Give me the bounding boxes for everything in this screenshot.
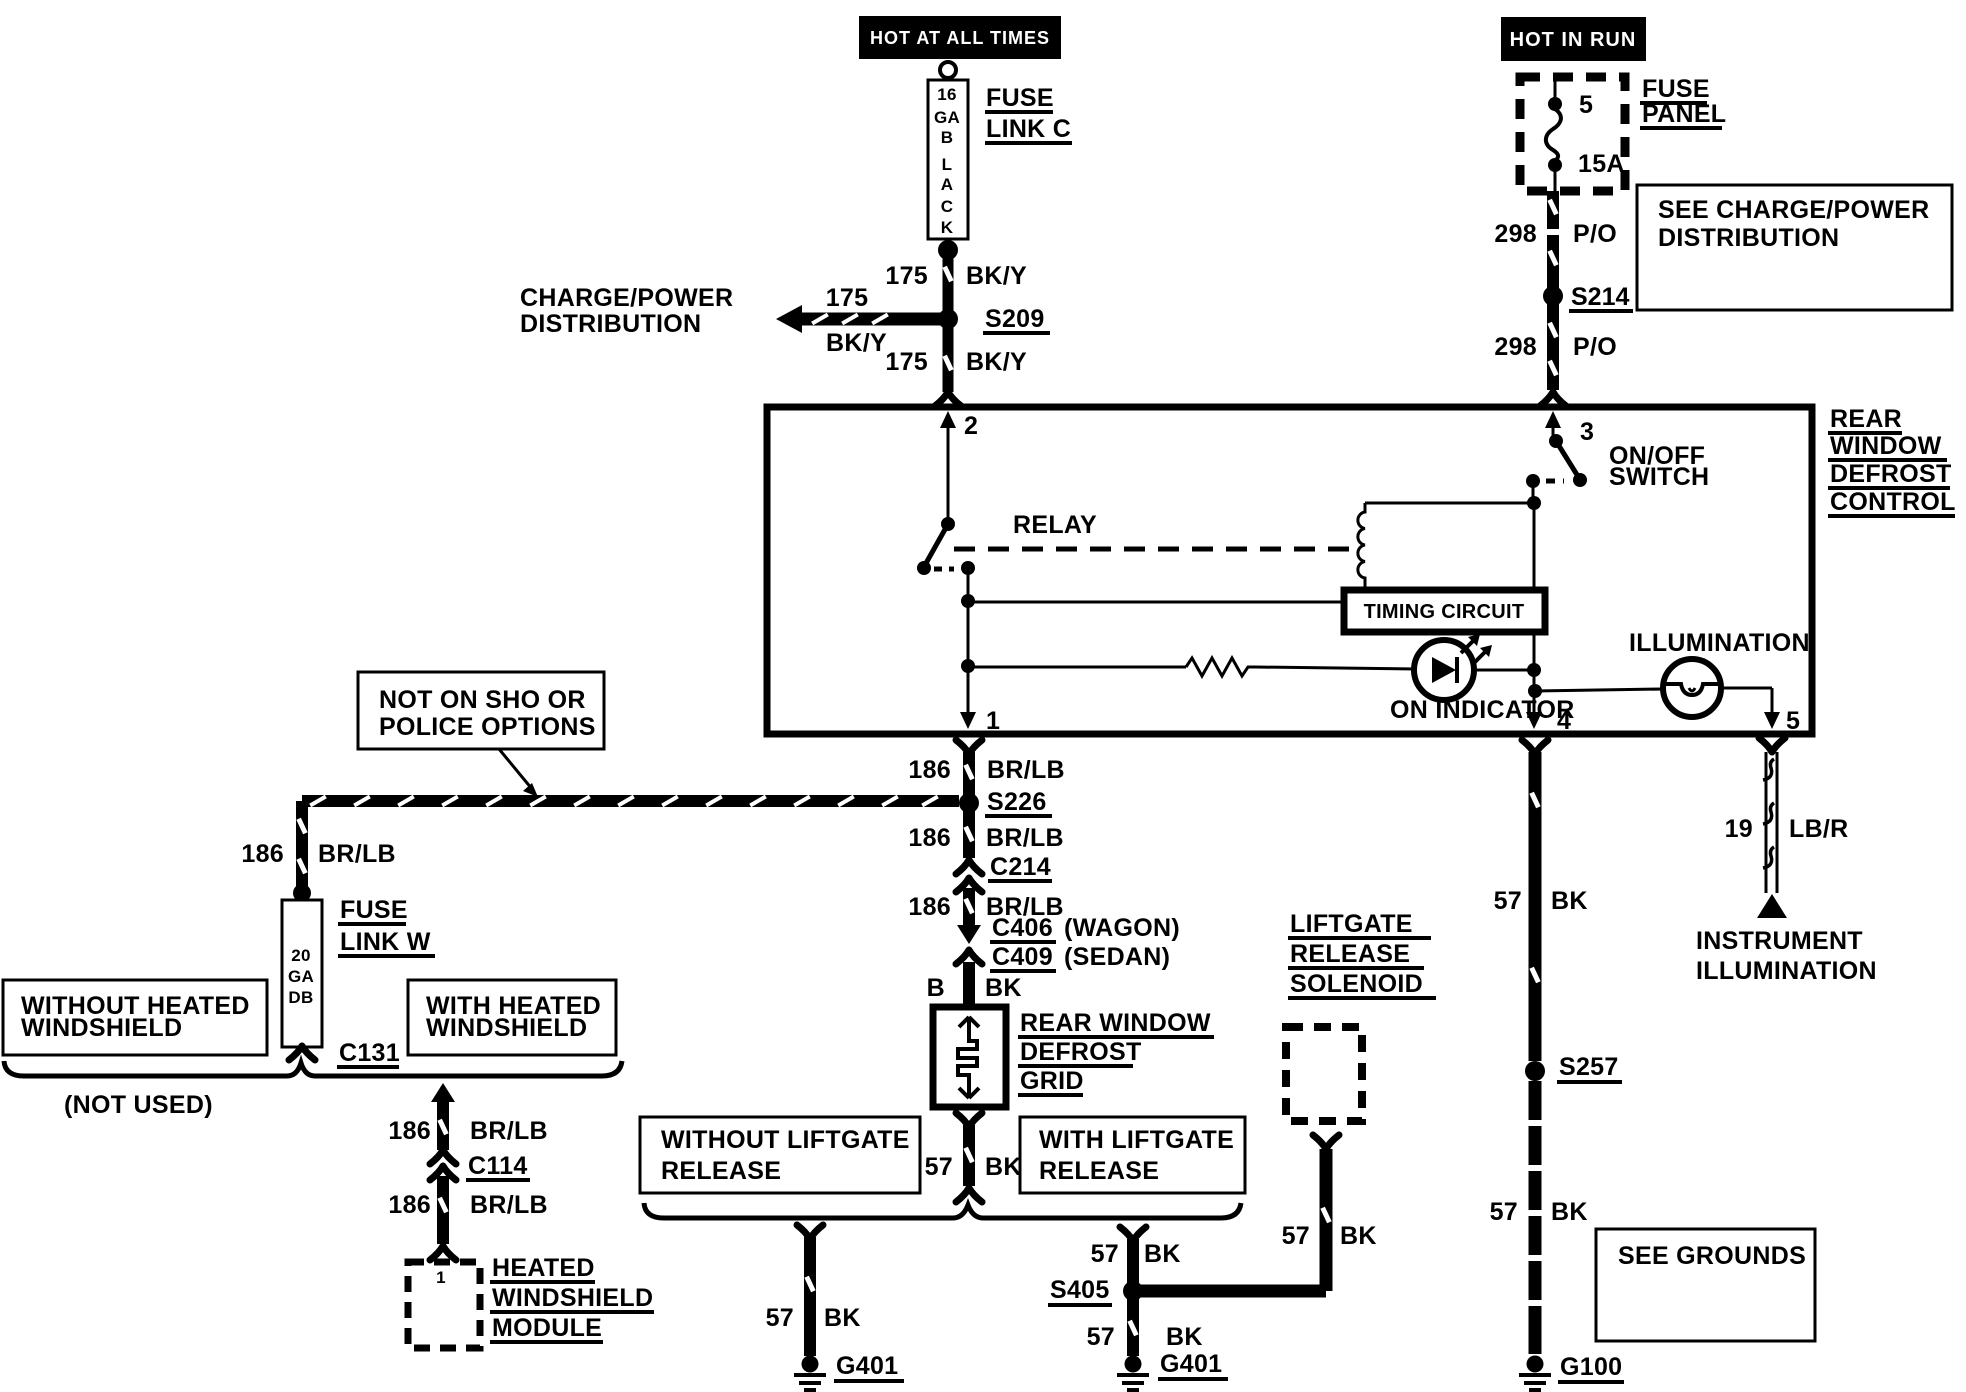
splice S214 — [1543, 283, 1633, 311]
wire LED to pin4 line — [1474, 663, 1542, 698]
svg-text:G100: G100 — [1560, 1353, 1622, 1381]
label 57 BK center — [925, 1153, 1022, 1181]
fuse element inside panel — [1546, 77, 1562, 191]
junction dot below fuse link C — [938, 240, 958, 260]
svg-text:BK: BK — [1166, 1323, 1203, 1351]
fuse panel dashed box — [1520, 77, 1625, 191]
wire 57 BK left drop to G401 — [797, 1225, 823, 1356]
svg-text:WINDSHIELD: WINDSHIELD — [426, 1014, 587, 1042]
svg-text:LIFTGATE: LIFTGATE — [1290, 910, 1413, 938]
svg-text:BK: BK — [1551, 887, 1588, 915]
splice S209 — [938, 305, 1050, 333]
svg-text:DEFROST: DEFROST — [1020, 1038, 1142, 1066]
svg-text:LINK C: LINK C — [986, 115, 1071, 143]
svg-text:57: 57 — [766, 1304, 794, 1332]
svg-text:SEE CHARGE/POWER: SEE CHARGE/POWER — [1658, 196, 1930, 224]
svg-text:C131: C131 — [339, 1039, 400, 1067]
svg-text:1: 1 — [436, 1268, 446, 1287]
on/off switch — [1526, 434, 1587, 488]
wire junction to timing circuit — [968, 601, 1348, 604]
heated windshield module dashed box — [408, 1262, 480, 1348]
connector C214 — [956, 853, 1052, 892]
svg-text:BR/LB: BR/LB — [987, 756, 1065, 784]
svg-text:175: 175 — [826, 284, 869, 312]
svg-text:2: 2 — [964, 412, 978, 440]
label 57 BK solenoid wire — [1282, 1222, 1377, 1250]
fuse link W body 20 GA DB — [282, 900, 322, 1047]
wire 19 LB/R pin5 to instrument illumination — [1759, 738, 1785, 893]
svg-text:C406: C406 — [992, 914, 1053, 942]
label HEATED WINDSHIELD MODULE — [490, 1254, 654, 1342]
svg-text:REAR: REAR — [1830, 405, 1902, 433]
svg-text:BR/LB: BR/LB — [318, 840, 396, 868]
segmented wire S257 to G100 — [1529, 1081, 1542, 1354]
wire B BK C409 to grid — [963, 962, 975, 1004]
connector label C406 (WAGON) — [990, 914, 1180, 942]
wire 186 BR/LB up arrow to C131 branch — [431, 1083, 455, 1150]
svg-text:186: 186 — [908, 824, 951, 852]
svg-text:FUSE: FUSE — [986, 84, 1054, 112]
svg-text:BK: BK — [985, 974, 1022, 1002]
wire 186 BR/LB S226 to C214 — [963, 810, 974, 858]
instrument illumination terminal triangle — [1757, 894, 1787, 918]
fuse link W bottom connector — [289, 1046, 315, 1060]
label B BK — [927, 974, 1022, 1002]
LED on indicator — [1414, 640, 1474, 700]
pin 5 arrow — [1764, 707, 1800, 735]
svg-text:BR/LB: BR/LB — [470, 1191, 548, 1219]
resistor to on indicator — [968, 658, 1415, 676]
svg-text:B: B — [941, 128, 954, 147]
svg-text:REAR WINDOW: REAR WINDOW — [1020, 1009, 1211, 1037]
svg-text:3: 3 — [1580, 418, 1594, 446]
wire coil top to switch — [1365, 481, 1541, 510]
pin 1 arrow — [960, 707, 1000, 735]
box SEE CHARGE/POWER DISTRIBUTION — [1637, 185, 1952, 310]
header HOT AT ALL TIMES — [859, 16, 1061, 59]
label 175 BK/Y lower — [885, 348, 1027, 376]
svg-text:POLICE OPTIONS: POLICE OPTIONS — [379, 713, 596, 741]
wire 298 P/O S214 to control pin 3 — [1540, 296, 1566, 406]
ground G401 left — [794, 1352, 904, 1390]
svg-text:L: L — [942, 155, 953, 174]
label 57 BK left drop — [766, 1304, 861, 1332]
svg-text:LINK W: LINK W — [340, 928, 431, 956]
svg-text:BK: BK — [985, 1153, 1022, 1181]
label INSTRUMENT ILLUMINATION — [1696, 927, 1877, 985]
connector ring at fuse link C top — [940, 62, 956, 78]
label 57 BK lower right — [1490, 1198, 1588, 1226]
rear window defrost control module box — [767, 407, 1812, 734]
thick wire S226 to left corner — [302, 795, 959, 807]
svg-text:186: 186 — [241, 840, 284, 868]
svg-text:(SEDAN): (SEDAN) — [1064, 943, 1170, 971]
svg-text:G401: G401 — [1160, 1350, 1222, 1378]
svg-text:DB: DB — [288, 988, 313, 1007]
svg-text:GRID: GRID — [1020, 1067, 1084, 1095]
label 298 P/O upper — [1494, 220, 1617, 248]
connector label C131 — [337, 1039, 400, 1067]
wire arrow to charge/power distribution — [776, 305, 943, 333]
wire relay contact down to pin 1 — [961, 568, 975, 712]
wire 57 BK pin4 to S257 — [1522, 740, 1548, 1061]
label LIFTGATE RELEASE SOLENOID — [1288, 910, 1436, 998]
svg-text:57: 57 — [1490, 1198, 1518, 1226]
svg-text:C214: C214 — [990, 853, 1051, 881]
svg-text:1: 1 — [986, 707, 1000, 735]
svg-text:DEFROST: DEFROST — [1830, 460, 1952, 488]
svg-text:FUSE: FUSE — [1642, 75, 1710, 103]
label 57 BK pin4 wire — [1494, 887, 1588, 915]
svg-text:4: 4 — [1557, 707, 1571, 735]
svg-text:P/O: P/O — [1573, 333, 1617, 361]
label 186 BR/LB above C114 — [388, 1117, 548, 1145]
box WITHOUT HEATED WINDSHIELD — [3, 980, 267, 1055]
svg-text:SOLENOID: SOLENOID — [1290, 970, 1423, 998]
svg-text:WINDSHIELD: WINDSHIELD — [492, 1284, 653, 1312]
svg-text:WINDOW: WINDOW — [1830, 432, 1942, 460]
svg-text:C114: C114 — [468, 1152, 528, 1180]
wire 186 BR/LB C114 to module — [430, 1176, 456, 1260]
svg-text:186: 186 — [388, 1117, 431, 1145]
pointer arrow from box to wire — [499, 749, 538, 797]
pin 3 arrow — [1545, 411, 1594, 446]
svg-text:BK: BK — [824, 1304, 861, 1332]
svg-text:ON INDICATOR: ON INDICATOR — [1390, 696, 1575, 724]
svg-text:INSTRUMENT: INSTRUMENT — [1696, 927, 1863, 955]
liftgate release solenoid dashed box — [1286, 1027, 1362, 1121]
relay coil — [1358, 503, 1365, 592]
svg-text:GA: GA — [934, 108, 960, 127]
timing circuit box — [1344, 590, 1545, 632]
svg-text:LB/R: LB/R — [1789, 815, 1849, 843]
wire 175 BK/Y S209 to control pin 2 — [935, 319, 961, 406]
svg-text:16: 16 — [937, 85, 957, 104]
svg-text:BK/Y: BK/Y — [966, 262, 1027, 290]
label REAR WINDOW DEFROST CONTROL — [1828, 405, 1956, 516]
svg-text:GA: GA — [288, 967, 314, 986]
box WITH HEATED WINDSHIELD — [408, 980, 616, 1055]
label 57 BK right drop — [1091, 1240, 1181, 1268]
svg-text:S405: S405 — [1050, 1276, 1110, 1304]
wire 186 BR/LB corner down to fuse link W — [296, 801, 307, 886]
label FUSE LINK C — [985, 84, 1072, 143]
box NOT ON SHO OR POLICE OPTIONS — [358, 672, 604, 749]
header HOT IN RUN — [1501, 17, 1646, 61]
wire junction to lamp — [1535, 689, 1663, 691]
svg-text:186: 186 — [908, 756, 951, 784]
svg-text:175: 175 — [885, 262, 928, 290]
rear window defrost grid box — [933, 1007, 1006, 1107]
wire 186 BR/LB pin1 to S226 — [956, 740, 982, 795]
wire S405 to liftgate solenoid — [1133, 1135, 1339, 1291]
svg-text:ILLUMINATION: ILLUMINATION — [1696, 957, 1877, 985]
svg-text:MODULE: MODULE — [492, 1314, 602, 1342]
svg-text:G401: G401 — [836, 1352, 898, 1380]
svg-text:S214: S214 — [1571, 283, 1629, 311]
svg-text:CONTROL: CONTROL — [1830, 488, 1956, 516]
label 186 BR/LB left column — [241, 840, 396, 868]
splice S226 — [959, 788, 1052, 816]
wire 298 P/O fuse panel to S214 — [1547, 191, 1558, 296]
svg-text:BK/Y: BK/Y — [966, 348, 1027, 376]
svg-text:B: B — [927, 974, 945, 1002]
svg-text:5: 5 — [1786, 707, 1800, 735]
svg-text:WITH LIFTGATE: WITH LIFTGATE — [1039, 1126, 1234, 1154]
connector label C409 (SEDAN) — [956, 943, 1170, 971]
svg-text:RELEASE: RELEASE — [661, 1157, 781, 1185]
svg-text:15A: 15A — [1578, 150, 1625, 178]
LED light rays — [1461, 634, 1492, 664]
svg-text:C: C — [941, 197, 954, 216]
box SEE GROUNDS — [1596, 1229, 1815, 1341]
svg-text:WITHOUT LIFTGATE: WITHOUT LIFTGATE — [661, 1126, 910, 1154]
label 19 LB/R — [1725, 815, 1849, 843]
label 186 BR/LB below C114 — [388, 1191, 548, 1219]
wire 57 BK right drop to S405 — [1120, 1227, 1146, 1285]
label REAR WINDOW DEFROST GRID — [1018, 1009, 1214, 1095]
ground G100 — [1519, 1353, 1624, 1390]
svg-text:TIMING CIRCUIT: TIMING CIRCUIT — [1364, 601, 1525, 623]
svg-text:175: 175 — [885, 348, 928, 376]
label FUSE PANEL — [1640, 75, 1726, 128]
label 175 BK/Y upper — [885, 262, 1027, 290]
box WITH LIFTGATE RELEASE — [1020, 1117, 1245, 1193]
pin 4 arrow — [1526, 707, 1571, 735]
svg-text:57: 57 — [1282, 1222, 1310, 1250]
splice S405 — [1048, 1276, 1143, 1305]
relay actuation dashed link — [954, 547, 1357, 552]
svg-text:BK: BK — [1144, 1240, 1181, 1268]
svg-text:RELEASE: RELEASE — [1039, 1157, 1159, 1185]
svg-text:PANEL: PANEL — [1642, 100, 1726, 128]
svg-text:186: 186 — [388, 1191, 431, 1219]
svg-text:20: 20 — [291, 946, 311, 965]
svg-text:57: 57 — [925, 1153, 953, 1181]
svg-text:RELEASE: RELEASE — [1290, 940, 1410, 968]
svg-text:WINDSHIELD: WINDSHIELD — [21, 1014, 182, 1042]
svg-text:K: K — [941, 218, 954, 237]
svg-text:P/O: P/O — [1573, 220, 1617, 248]
label 57 BK below S405 — [1087, 1323, 1203, 1351]
svg-text:186: 186 — [908, 893, 951, 921]
svg-text:S209: S209 — [985, 305, 1045, 333]
junction dot fuse link W top — [293, 884, 311, 902]
svg-text:DISTRIBUTION: DISTRIBUTION — [1658, 224, 1839, 252]
svg-text:(WAGON): (WAGON) — [1064, 914, 1180, 942]
wire 57 BK grid to brace — [956, 1113, 982, 1202]
svg-text:BR/LB: BR/LB — [986, 824, 1064, 852]
svg-text:C409: C409 — [992, 943, 1053, 971]
relay contact arm — [917, 517, 975, 575]
svg-text:SWITCH: SWITCH — [1609, 463, 1709, 491]
svg-text:298: 298 — [1494, 333, 1537, 361]
fuse link C body 16 GA BLACK — [928, 80, 968, 239]
illumination lamp — [1663, 659, 1721, 717]
svg-text:57: 57 — [1494, 887, 1522, 915]
svg-text:BK: BK — [1551, 1198, 1588, 1226]
wire 186 BR/LB C214 to C406 — [957, 888, 981, 944]
svg-text:NOT ON SHO OR: NOT ON SHO OR — [379, 686, 586, 714]
svg-text:ILLUMINATION: ILLUMINATION — [1629, 629, 1810, 657]
svg-text:BK/Y: BK/Y — [826, 329, 887, 357]
box WITHOUT LIFTGATE RELEASE — [640, 1117, 920, 1193]
label 186 BR/LB above C214 — [908, 824, 1064, 852]
ground G401 right — [1117, 1350, 1228, 1390]
svg-text:CHARGE/POWER: CHARGE/POWER — [520, 284, 733, 312]
svg-text:HOT IN RUN: HOT IN RUN — [1510, 29, 1637, 51]
label 186 BR/LB above C406 — [908, 893, 1064, 921]
label 298 P/O lower — [1494, 333, 1617, 361]
pin 2 arrow — [940, 411, 978, 521]
label 186 BR/LB below pin1 — [908, 756, 1065, 784]
svg-text:298: 298 — [1494, 220, 1537, 248]
wire 175 BK/Y fuse link C to S209 — [942, 250, 953, 319]
svg-text:RELAY: RELAY — [1013, 511, 1097, 539]
svg-text:S226: S226 — [987, 788, 1047, 816]
svg-text:57: 57 — [1091, 1240, 1119, 1268]
svg-text:SEE GROUNDS: SEE GROUNDS — [1618, 1242, 1806, 1270]
connector C114 — [430, 1150, 530, 1180]
splice S257 — [1525, 1053, 1622, 1082]
wire switch junction down to pin 4 — [1533, 503, 1536, 712]
svg-text:19: 19 — [1725, 815, 1753, 843]
svg-text:FUSE: FUSE — [340, 896, 408, 924]
svg-text:(NOT USED): (NOT USED) — [64, 1091, 213, 1119]
svg-text:BK: BK — [1340, 1222, 1377, 1250]
brace under liftgate options — [644, 1203, 1241, 1218]
svg-text:5: 5 — [1579, 91, 1593, 119]
svg-text:HEATED: HEATED — [492, 1254, 595, 1282]
svg-text:BR/LB: BR/LB — [470, 1117, 548, 1145]
wire 57 BK S405 to G401 — [1127, 1297, 1138, 1356]
svg-text:HOT AT ALL TIMES: HOT AT ALL TIMES — [870, 28, 1050, 48]
svg-text:S257: S257 — [1559, 1053, 1619, 1081]
svg-text:A: A — [941, 175, 954, 194]
svg-text:57: 57 — [1087, 1323, 1115, 1351]
label CHARGE/POWER DISTRIBUTION — [520, 284, 733, 338]
label ON/OFF SWITCH — [1609, 442, 1709, 491]
wire lamp to pin 5 — [1721, 688, 1772, 712]
brace under C131 — [4, 1061, 622, 1076]
label FUSE LINK W — [338, 896, 435, 956]
svg-text:DISTRIBUTION: DISTRIBUTION — [520, 310, 701, 338]
